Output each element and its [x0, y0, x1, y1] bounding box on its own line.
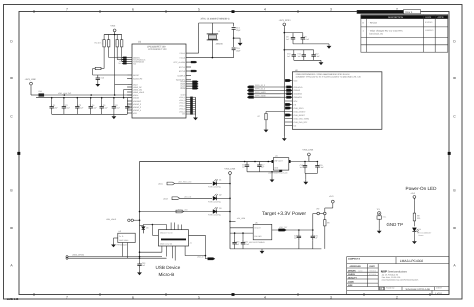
svg-text:LINK_RED_LED: LINK_RED_LED [178, 181, 192, 184]
capacitor C5 [100, 98, 109, 115]
wire U5 out [272, 229, 297, 231]
svg-text:R3 4K7: R3 4K7 [106, 39, 109, 45]
svg-text:RTCX1: RTCX1 [179, 66, 185, 69]
svg-text:IO2/WP: IO2/WP [294, 89, 301, 92]
svg-text:6: 6 [132, 296, 134, 300]
svg-text:11/8/2013: 11/8/2013 [425, 29, 433, 32]
power +3V3_LINK output [290, 149, 318, 163]
svg-text:D+ D-: D+ D- [119, 235, 124, 238]
svg-text:LPC4330FET100: LPC4330FET100 [148, 48, 167, 51]
resistor R4 [121, 35, 127, 62]
svg-text:PWR/LOADR(L): PWR/LOADR(L) [208, 200, 221, 203]
svg-text:7: 7 [66, 8, 68, 12]
svg-text:VBUS D+ D- ID: VBUS D+ D- ID [160, 232, 173, 235]
svg-text:+3V3_LINK: +3V3_LINK [25, 78, 37, 81]
svg-text:LMB 143: LMB 143 [7, 297, 19, 301]
svg-text:PWR/LOADR(L): PWR/LOADR(L) [208, 214, 221, 217]
IC U2 SPIFI flash box [292, 72, 382, 130]
svg-text:2.2uF: 2.2uF [53, 106, 59, 109]
svg-text:ABM3B: ABM3B [216, 42, 224, 45]
capacitor C10 [287, 50, 296, 61]
node LED2 flag [163, 195, 212, 200]
capacitor C20 [294, 229, 301, 249]
capacitor C17 [257, 162, 265, 172]
svg-text:SPIFI_IO_2: SPIFI_IO_2 [255, 88, 265, 91]
svg-text:Power-On LED: Power-On LED [406, 186, 438, 191]
wire VDD rail 1 [44, 94, 132, 96]
wire USB row drop [123, 90, 125, 98]
ground crystal [233, 37, 243, 45]
U1 right signal flags rows [186, 81, 198, 90]
node VDD_TGT flag [279, 226, 289, 231]
power +3V3 target [325, 195, 334, 212]
wire USB ID [197, 255, 215, 259]
svg-text:R5 4K7: R5 4K7 [119, 39, 122, 45]
svg-text:USB0_VBUS: USB0_VBUS [133, 91, 145, 94]
regulator U4 LDO +3V3 link [268, 155, 290, 175]
svg-text:LED1: LED1 [158, 183, 163, 186]
svg-text:SPIFI_IO_3: SPIFI_IO_3 [255, 84, 265, 87]
svg-text:R7: R7 [258, 115, 260, 118]
svg-text:GND VBUS: GND VBUS [119, 239, 129, 242]
svg-text:12pF: 12pF [236, 50, 241, 53]
node RTC flags [191, 61, 197, 72]
svg-text:SHEET: SHEET [436, 287, 443, 290]
svg-text:330: 330 [417, 217, 420, 220]
wire J1 right loop [185, 235, 206, 256]
svg-text:3: 3 [330, 8, 332, 12]
svg-text:San Jose, CA 95 135: San Jose, CA 95 135 [382, 276, 402, 279]
wire pullup center drop [114, 35, 116, 96]
svg-text:DATE: DATE [370, 265, 376, 268]
svg-text:DATE: DATE [426, 16, 432, 19]
wire SPIFI VCC vertical [283, 28, 285, 137]
svg-text:Micro-B: Micro-B [159, 272, 175, 277]
ground SPIFI vertical [282, 136, 287, 141]
led D2 [208, 193, 230, 203]
wire cap group2 bottom [294, 59, 321, 61]
capacitor C6 [112, 98, 121, 115]
svg-text:VIN VOUT: VIN VOUT [274, 160, 283, 163]
svg-text:COMPANY N: COMPANY N [348, 258, 361, 261]
svg-text:VSS0_1: VSS0_1 [179, 96, 185, 99]
svg-text:DRAWN: DRAWN [348, 269, 356, 272]
wire U5 in bottom [230, 232, 253, 234]
wire cap bottom rail [52, 113, 128, 115]
svg-text:4: 4 [264, 296, 266, 300]
ground D4 [412, 239, 417, 244]
svg-text:VDDIO: VDDIO [133, 97, 140, 100]
wire J1 vbus to diode [143, 225, 166, 234]
wire LED3 row [140, 211, 214, 213]
ground caps [112, 114, 117, 119]
svg-text:IO1/MISO: IO1/MISO [294, 93, 303, 96]
svg-text:GND_SPIFI: GND_SPIFI [294, 107, 304, 110]
svg-text:SAMPLE: SAMPLE [177, 74, 185, 77]
svg-text:RESET: RESET [133, 74, 140, 77]
svg-text:GND_RESET: GND_RESET [294, 114, 306, 117]
ground U3 [114, 237, 118, 239]
svg-text:VDDH: VDDH [181, 93, 187, 96]
svg-text:U5: U5 [255, 221, 257, 224]
ferrite bead FB1 [31, 90, 44, 96]
wire main +5V vertical [139, 162, 141, 257]
svg-text:bat circuit, etc: bat circuit, etc [370, 33, 384, 36]
svg-text:D5: D5 [146, 226, 148, 229]
svg-text:+3V3: +3V3 [411, 192, 415, 195]
U1 left pins group2 [127, 75, 132, 79]
svg-text:R1 4K7: R1 4K7 [94, 42, 100, 45]
ground R7 [264, 128, 269, 133]
svg-text:7/9/2013: 7/9/2013 [369, 269, 376, 272]
svg-text:Semiconductors: Semiconductors [388, 270, 408, 273]
svg-text:LMA3-LPC4302: LMA3-LPC4302 [400, 259, 424, 263]
J1 top pin stubs [167, 223, 182, 230]
svg-text:CHECK: CHECK [348, 273, 356, 276]
wire J1 pin1 bend [140, 251, 162, 253]
ground U1 VSS [193, 116, 198, 121]
wire U3 drop2 [127, 243, 129, 259]
wire VBAT row [115, 84, 127, 86]
svg-text:IN OUT: IN OUT [255, 227, 262, 230]
power LED rail [224, 167, 236, 249]
wire cap group1 bottom [293, 43, 329, 45]
wire cap group2 rail [284, 49, 313, 51]
svg-text:R9: R9 [327, 221, 329, 224]
svg-text:C13: C13 [101, 77, 104, 80]
ground cap group1 [327, 44, 332, 49]
svg-text:0.1uF: 0.1uF [244, 243, 250, 246]
wire VSS collector [195, 97, 197, 115]
svg-text:0.1uF: 0.1uF [115, 106, 121, 109]
svg-text:LED_GN: LED_GN [184, 195, 192, 198]
svg-text:LED2: LED2 [163, 197, 168, 200]
svg-text:9/7/2013: 9/7/2013 [369, 273, 376, 276]
svg-text:www.foundation.nxp.com/semicon: www.foundation.nxp.com/semiconductors [382, 279, 419, 282]
svg-text:DESCRIPTION: DESCRIPTION [388, 16, 403, 19]
capacitor C11 [298, 50, 306, 61]
resistor R5 reset [93, 67, 127, 75]
svg-text:Rev 1: Rev 1 [406, 11, 413, 14]
capacitor C7 [125, 98, 133, 115]
svg-text:U4: U4 [275, 155, 277, 158]
capacitor C14 [232, 23, 242, 38]
U1 left pins group4 power [127, 95, 132, 113]
ground U4 [280, 171, 282, 173]
node +5V_USB flag [230, 217, 246, 221]
svg-text:APPROVED: APPROVED [350, 265, 362, 268]
svg-text:KS1: KS1 [383, 215, 386, 218]
power +3V3 LED [411, 192, 416, 213]
svg-text:5: 5 [198, 296, 200, 300]
ESD protection U3 [117, 230, 136, 246]
svg-text:SPIFI_MISO: SPIFI_MISO [255, 91, 266, 94]
svg-text:NXP: NXP [381, 269, 387, 273]
capacitor C3 [75, 98, 84, 115]
resistor R7 [258, 112, 268, 128]
svg-text:IO3/HOLD: IO3/HOLD [294, 86, 303, 89]
svg-text:0.1uF: 0.1uF [304, 38, 310, 41]
ground TP1 [377, 229, 382, 234]
wire main +5V horizontal [140, 161, 274, 163]
svg-text:0.1uF: 0.1uF [319, 166, 325, 169]
svg-text:A: A [380, 288, 382, 291]
svg-text:JP2: JP2 [316, 207, 319, 210]
wire target bottom rail [230, 248, 321, 250]
power +3V3 pullup rail [104, 25, 122, 35]
ground LDO out caps [305, 173, 307, 179]
svg-text:D1: D1 [219, 179, 221, 182]
svg-text:- Review: - Review [369, 22, 378, 25]
svg-text:2: 2 [396, 296, 398, 300]
svg-text:VSS0_4: VSS0_4 [179, 105, 185, 108]
svg-text:GND S1 S2 S3: GND S1 S2 S3 [160, 243, 172, 246]
svg-text:+3V3_SPIFI: +3V3_SPIFI [279, 19, 291, 22]
svg-text:PRT5V0U2X: PRT5V0U2X [117, 243, 128, 246]
svg-text:name: name [358, 270, 363, 272]
power +3.3V_LINK [25, 78, 37, 95]
svg-text:TDI: TDI [133, 62, 137, 65]
svg-text:D4: D4 [418, 228, 420, 231]
svg-text:+5V_USB: +5V_USB [237, 217, 246, 220]
wire cap group1 rail [284, 32, 303, 34]
svg-text:12pF: 12pF [236, 29, 241, 32]
svg-text:RTCX2: RTCX2 [179, 70, 185, 73]
node VBUS flag JP1 [106, 218, 140, 222]
svg-text:IO0/MOSI: IO0/MOSI [294, 96, 303, 99]
svg-text:USB_ID: USB_ID [197, 255, 204, 258]
svg-text:VDDREG: VDDREG [133, 100, 142, 103]
resistor vertical value labels [101, 39, 122, 45]
title block [347, 257, 449, 295]
svg-text:USB0_DP/DM: USB0_DP/DM [72, 253, 85, 256]
svg-text:EN GND: EN GND [255, 235, 263, 238]
svg-text:VDDIO_2: VDDIO_2 [133, 103, 141, 106]
capacitor C13 reset [95, 75, 104, 87]
svg-text:9/7/2013: 9/7/2013 [425, 21, 432, 24]
regulator U5 target +3.3V [249, 221, 272, 243]
wire U3 drop1 [122, 243, 124, 257]
svg-text:TP1: TP1 [377, 208, 380, 211]
IC U1 LPC4350 MCU box [132, 44, 186, 118]
capacitor C19 [315, 162, 324, 174]
svg-text:U3: U3 [119, 230, 121, 233]
svg-text:5: 5 [198, 8, 200, 12]
U1 right VSS pin cluster [186, 97, 196, 114]
U2 left pin labels [294, 79, 310, 127]
wire USB DM [68, 257, 167, 259]
svg-text:7: 7 [66, 296, 68, 300]
resistor R9 [324, 217, 330, 249]
svg-text:QUALITY: QUALITY [348, 276, 357, 279]
svg-text:Jul 18, Postbus 80: Jul 18, Postbus 80 [382, 273, 399, 276]
svg-text:VDDIO_4: VDDIO_4 [133, 109, 141, 112]
svg-text:SIZE: SIZE [348, 284, 353, 287]
wire USB DP [68, 256, 162, 258]
svg-text:USB Device: USB Device [156, 265, 181, 270]
svg-text:S25FL032P0XMFI010 / S25FL164K0: S25FL032P0XMFI010 / S25FL164K0XMFI010 SP… [296, 73, 350, 76]
capacitor C2 [62, 98, 71, 115]
capacitor C12 [311, 50, 320, 61]
svg-text:R2 4K7: R2 4K7 [101, 39, 104, 45]
wire J1 left loop [152, 234, 158, 236]
test point TP1 GND [377, 208, 387, 229]
svg-text:0.1uF: 0.1uF [92, 106, 98, 109]
svg-text:+3V3_LINK: +3V3_LINK [224, 167, 236, 170]
resistor R8 [413, 213, 420, 226]
capacitor C4 [89, 98, 98, 115]
svg-text:4: 4 [264, 8, 266, 12]
capacitor C22 usb [137, 256, 146, 275]
capacitor C9 [301, 33, 310, 44]
svg-text:SPIFI_MOSI: SPIFI_MOSI [255, 94, 266, 97]
svg-text:VSS0_5: VSS0_5 [179, 108, 185, 111]
svg-text:D2: D2 [219, 193, 221, 196]
node rail junctions [51, 94, 115, 98]
svg-text:FSCM NO: FSCM NO [386, 287, 395, 290]
capacitor C1 [50, 98, 59, 115]
U1 left pins group1 [127, 58, 133, 64]
U1 right pin stubs upper [186, 53, 234, 80]
J1 bottom pin stubs [162, 246, 185, 261]
node JTAG flags left of U1 [122, 57, 126, 64]
led D3 [208, 207, 230, 217]
capacitor C23 [232, 232, 240, 249]
svg-text:6: 6 [132, 8, 134, 12]
svg-text:R8: R8 [417, 214, 419, 217]
svg-text:32/64MBIT SPI/QUAD-IO 3V 8-SO2: 32/64MBIT SPI/QUAD-IO 3V 8-SO209 (LOADED… [296, 76, 362, 79]
connector J2 usb cable stubs [66, 253, 85, 259]
connector J1 USB micro-B [158, 230, 191, 246]
svg-text:3: 3 [330, 296, 332, 300]
svg-text:PWR/LOADR(L): PWR/LOADR(L) [208, 186, 221, 189]
led D4 power-on [412, 228, 432, 239]
ground cap group2 [319, 60, 324, 65]
svg-text:+3V3_LINK: +3V3_LINK [302, 149, 314, 152]
svg-text:0.1uF: 0.1uF [315, 55, 321, 58]
wire VDD rail 2 [36, 97, 132, 99]
crystal Y1 [199, 17, 234, 58]
svg-text:WAKEUP0: WAKEUP0 [133, 77, 142, 80]
jumper JP2 [313, 207, 326, 230]
U1 left pins group3 [127, 85, 132, 93]
svg-text:VSS0_2: VSS0_2 [179, 99, 185, 102]
ground target rail [260, 249, 265, 254]
svg-text:BOOT_LED: BOOT_LED [178, 209, 188, 212]
led D1 [208, 179, 230, 189]
svg-text:GND: GND [274, 167, 279, 170]
svg-text:CODE: CODE [348, 280, 354, 283]
svg-text:0.1uF: 0.1uF [65, 106, 71, 109]
svg-text:0.1uF: 0.1uF [103, 106, 109, 109]
svg-text:Green: Green [418, 234, 423, 237]
svg-text:FB1: FB1 [39, 90, 42, 93]
svg-text:LD1117S33TR-SOT-223: LD1117S33TR-SOT-223 [268, 171, 287, 174]
svg-text:XTAL2: XTAL2 [179, 56, 185, 59]
svg-text:+3V3: +3V3 [329, 195, 333, 198]
svg-text:XTAL 12.000MHZ ABM3B-G: XTAL 12.000MHZ ABM3B-G [201, 17, 230, 20]
node SPIFI bus flags [247, 86, 280, 99]
svg-text:D3: D3 [219, 207, 221, 210]
svg-text:Schematic LPC114-AB: Schematic LPC114-AB [406, 288, 431, 291]
wire LDO gnd rail [247, 171, 281, 173]
svg-text:XTAL1: XTAL1 [179, 52, 185, 55]
capacitor C15 [232, 38, 242, 58]
svg-text:VDDIO_3: VDDIO_3 [133, 106, 141, 109]
svg-text:GND TP: GND TP [387, 222, 404, 227]
node LED3 flag [176, 209, 188, 213]
svg-text:GND_VSS_TERM: GND_VSS_TERM [294, 117, 310, 120]
svg-text:- Value changes R6, C4, C4xx R: - Value changes R6, C4, C4xx RTC [369, 30, 404, 33]
capacitor C8 [286, 33, 295, 44]
wire U5 in top [230, 227, 253, 229]
capacitor C16 [242, 162, 249, 172]
svg-text:VCC: VCC [294, 79, 299, 82]
svg-text:GND_CS/EXT: GND_CS/EXT [294, 110, 307, 113]
svg-text:NCP1117DT33RKG: NCP1117DT33RKG [249, 241, 265, 244]
resistor R3 [116, 35, 127, 60]
svg-text:0.1uF: 0.1uF [79, 106, 85, 109]
svg-text:VDD_TGT: VDD_TGT [279, 226, 288, 229]
node LED1 flag [158, 181, 212, 186]
ground LDO input caps [270, 178, 275, 183]
U1 left pin labels [133, 56, 146, 115]
svg-text:USB_VBUS: USB_VBUS [106, 218, 117, 221]
svg-text:VSS0_3: VSS0_3 [179, 102, 185, 105]
U2 left pin stubs [266, 79, 292, 125]
svg-text:1 of 10: 1 of 10 [435, 292, 442, 295]
power +3V3_SPIFI [279, 19, 291, 28]
resistor R1 [94, 35, 105, 69]
capacitor C18 [300, 162, 308, 174]
diode D5 vbus [140, 226, 149, 234]
svg-text:GND_PAD_SPF: GND_PAD_SPF [294, 121, 309, 124]
capacitor C24 [241, 232, 250, 249]
svg-text:+3V3: +3V3 [110, 25, 116, 28]
svg-text:APPR: APPR [438, 16, 444, 19]
resistor R2 [108, 35, 127, 58]
revision table [357, 10, 448, 53]
wire LDO out caps bottom [305, 172, 317, 174]
svg-text:Target +3.3V Power: Target +3.3V Power [262, 211, 306, 217]
svg-text:VDDA: VDDA [133, 94, 139, 97]
svg-text:J1: J1 [190, 242, 192, 245]
capacitor C21 [297, 229, 319, 249]
svg-text:RTC_ALARM: RTC_ALARM [174, 61, 186, 64]
